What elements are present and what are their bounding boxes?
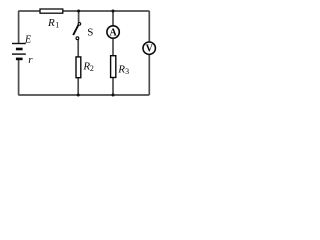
svg-text:V: V [146,44,154,55]
svg-text:R: R [47,17,55,29]
svg-text:A: A [109,27,117,38]
svg-text:R: R [117,64,125,76]
svg-text:S: S [87,27,93,39]
svg-text:1: 1 [55,20,59,29]
svg-text:E: E [24,34,31,45]
svg-text:3: 3 [125,67,129,76]
svg-text:2: 2 [90,64,94,73]
svg-text:r: r [28,54,33,66]
